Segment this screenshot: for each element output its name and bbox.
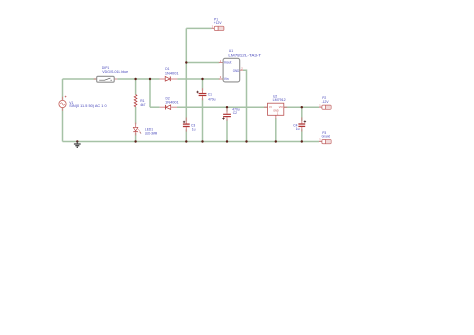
svg-text:1N4001: 1N4001 [165,101,179,105]
connector P2 [319,96,331,109]
capacitor C3 [183,118,196,132]
resistor R1 [134,95,145,107]
connector P3 [319,131,331,144]
wire C2 branch top [226,107,228,111]
wire V1 bottom lead [62,108,64,142]
svg-text:U1: U1 [229,49,233,53]
svg-text:+12V: +12V [214,21,223,25]
svg-text:VDG/S-01L blue: VDG/S-01L blue [102,70,128,74]
svg-text:470u: 470u [208,97,216,101]
wire bottom ground bus [63,141,320,143]
wire R1 to LED1 [135,107,137,124]
wire main row DIP1 to D1 [117,78,159,80]
regulator U2 [264,94,287,118]
svg-text:4k7: 4k7 [140,103,145,107]
svg-text:1u: 1u [192,128,196,132]
svg-text:LED-3MM: LED-3MM [145,131,157,135]
svg-text:Ground: Ground [322,135,331,139]
svg-text:GND: GND [233,69,240,73]
wire C1 branch top [202,79,204,91]
capacitor C4 [293,117,306,131]
node junction R1 tap [134,78,136,80]
switch DIP1 [94,66,129,82]
node junction C2 bus [226,140,228,142]
wire +12V vertical down to C3 [185,63,187,122]
svg-text:C2: C2 [233,111,237,115]
node junction C4 tap [301,106,303,108]
wire vertical +12V rail [185,28,187,62]
node junction Vout row [185,61,187,63]
wire C2 branch bottom [226,119,228,141]
voltage source V1 [59,96,107,111]
node junction C2 tap [226,106,228,108]
node junction U1 GND bus [245,140,247,142]
diode D2 [160,96,179,109]
node junction C4 bus [301,140,303,142]
svg-text:SIN(0 11.5 50) AC 1 0: SIN(0 11.5 50) AC 1 0 [69,104,106,108]
wire D2 branch vertical [149,79,151,107]
node junction C1 bus [201,140,203,142]
node junction LED1 bus [134,140,136,142]
svg-text:LM7912: LM7912 [273,98,286,102]
node junction C1 tap [201,78,203,80]
wire U2 GND to bus [275,118,277,141]
svg-text:Vin: Vin [224,77,229,81]
wire main AC row left of DIP1 [63,78,97,80]
svg-text:VO: VO [279,105,283,109]
diode D1 [160,67,179,81]
wire P1 row [186,27,211,29]
wire U2 VO row to P2 [284,106,319,108]
LED LED1 [133,123,157,136]
wire main row D1 to U1 Vin [177,78,219,80]
wire D2 row left [150,106,160,108]
node junction U2 GND bus [275,140,277,142]
svg-text:Vout: Vout [224,60,232,64]
wire C1 branch bottom [202,98,204,141]
node junction ground symbol [76,140,78,142]
wire LED1 to bus [135,133,137,142]
wire C4 branch top [301,107,303,121]
svg-text:1u: 1u [296,127,300,131]
svg-text:-12V: -12V [322,100,330,104]
wire Vout row [186,62,219,64]
svg-text:C1: C1 [208,93,212,97]
capacitor C2 [222,108,240,121]
svg-text:LM7812L-TA3-T: LM7812L-TA3-T [228,54,261,58]
svg-text:1N4001: 1N4001 [165,71,179,75]
capacitor C1 [196,88,215,101]
connector P1 [212,17,224,30]
wire D2 row to U2 VI [177,106,268,108]
wire C3 to bus [185,129,187,141]
node junction D2 tap [149,78,151,80]
wire C4 branch bottom [301,129,303,141]
wire R1 branch top [135,79,137,95]
regulator U1 [219,49,261,82]
svg-text:VI: VI [269,105,272,109]
wire V1 top lead [62,79,64,100]
wire U1 GND to bus [243,70,247,141]
ground [74,142,81,148]
node junction C3 bus [185,140,187,142]
